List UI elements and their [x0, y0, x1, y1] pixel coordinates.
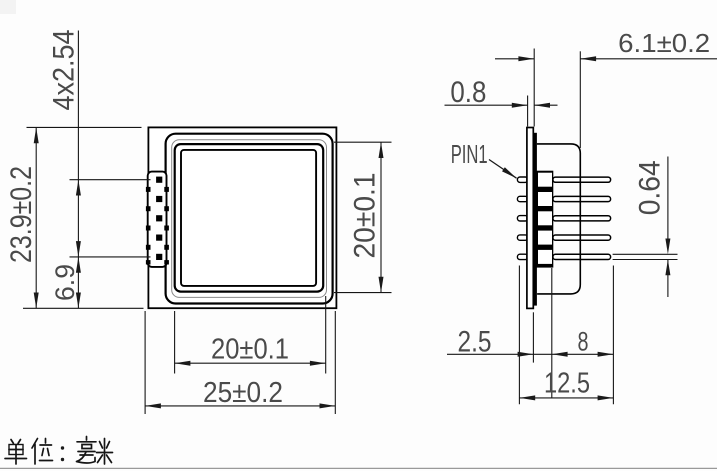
svg-text:0.64: 0.64	[634, 160, 667, 215]
svg-text:25±0.2: 25±0.2	[203, 377, 283, 409]
svg-text:0.8: 0.8	[450, 76, 486, 109]
svg-text:6.9: 6.9	[50, 264, 80, 301]
svg-text:8: 8	[578, 326, 589, 356]
svg-text:23.9±0.2: 23.9±0.2	[5, 166, 38, 263]
svg-text:PIN1: PIN1	[451, 139, 488, 169]
svg-text:12.5: 12.5	[544, 367, 590, 399]
svg-text:6.1±0.2: 6.1±0.2	[618, 28, 710, 58]
svg-text:4x2.54: 4x2.54	[48, 30, 81, 111]
svg-text:20±0.1: 20±0.1	[211, 334, 289, 366]
svg-text:2.5: 2.5	[458, 325, 492, 358]
svg-text:20±0.1: 20±0.1	[349, 173, 382, 259]
